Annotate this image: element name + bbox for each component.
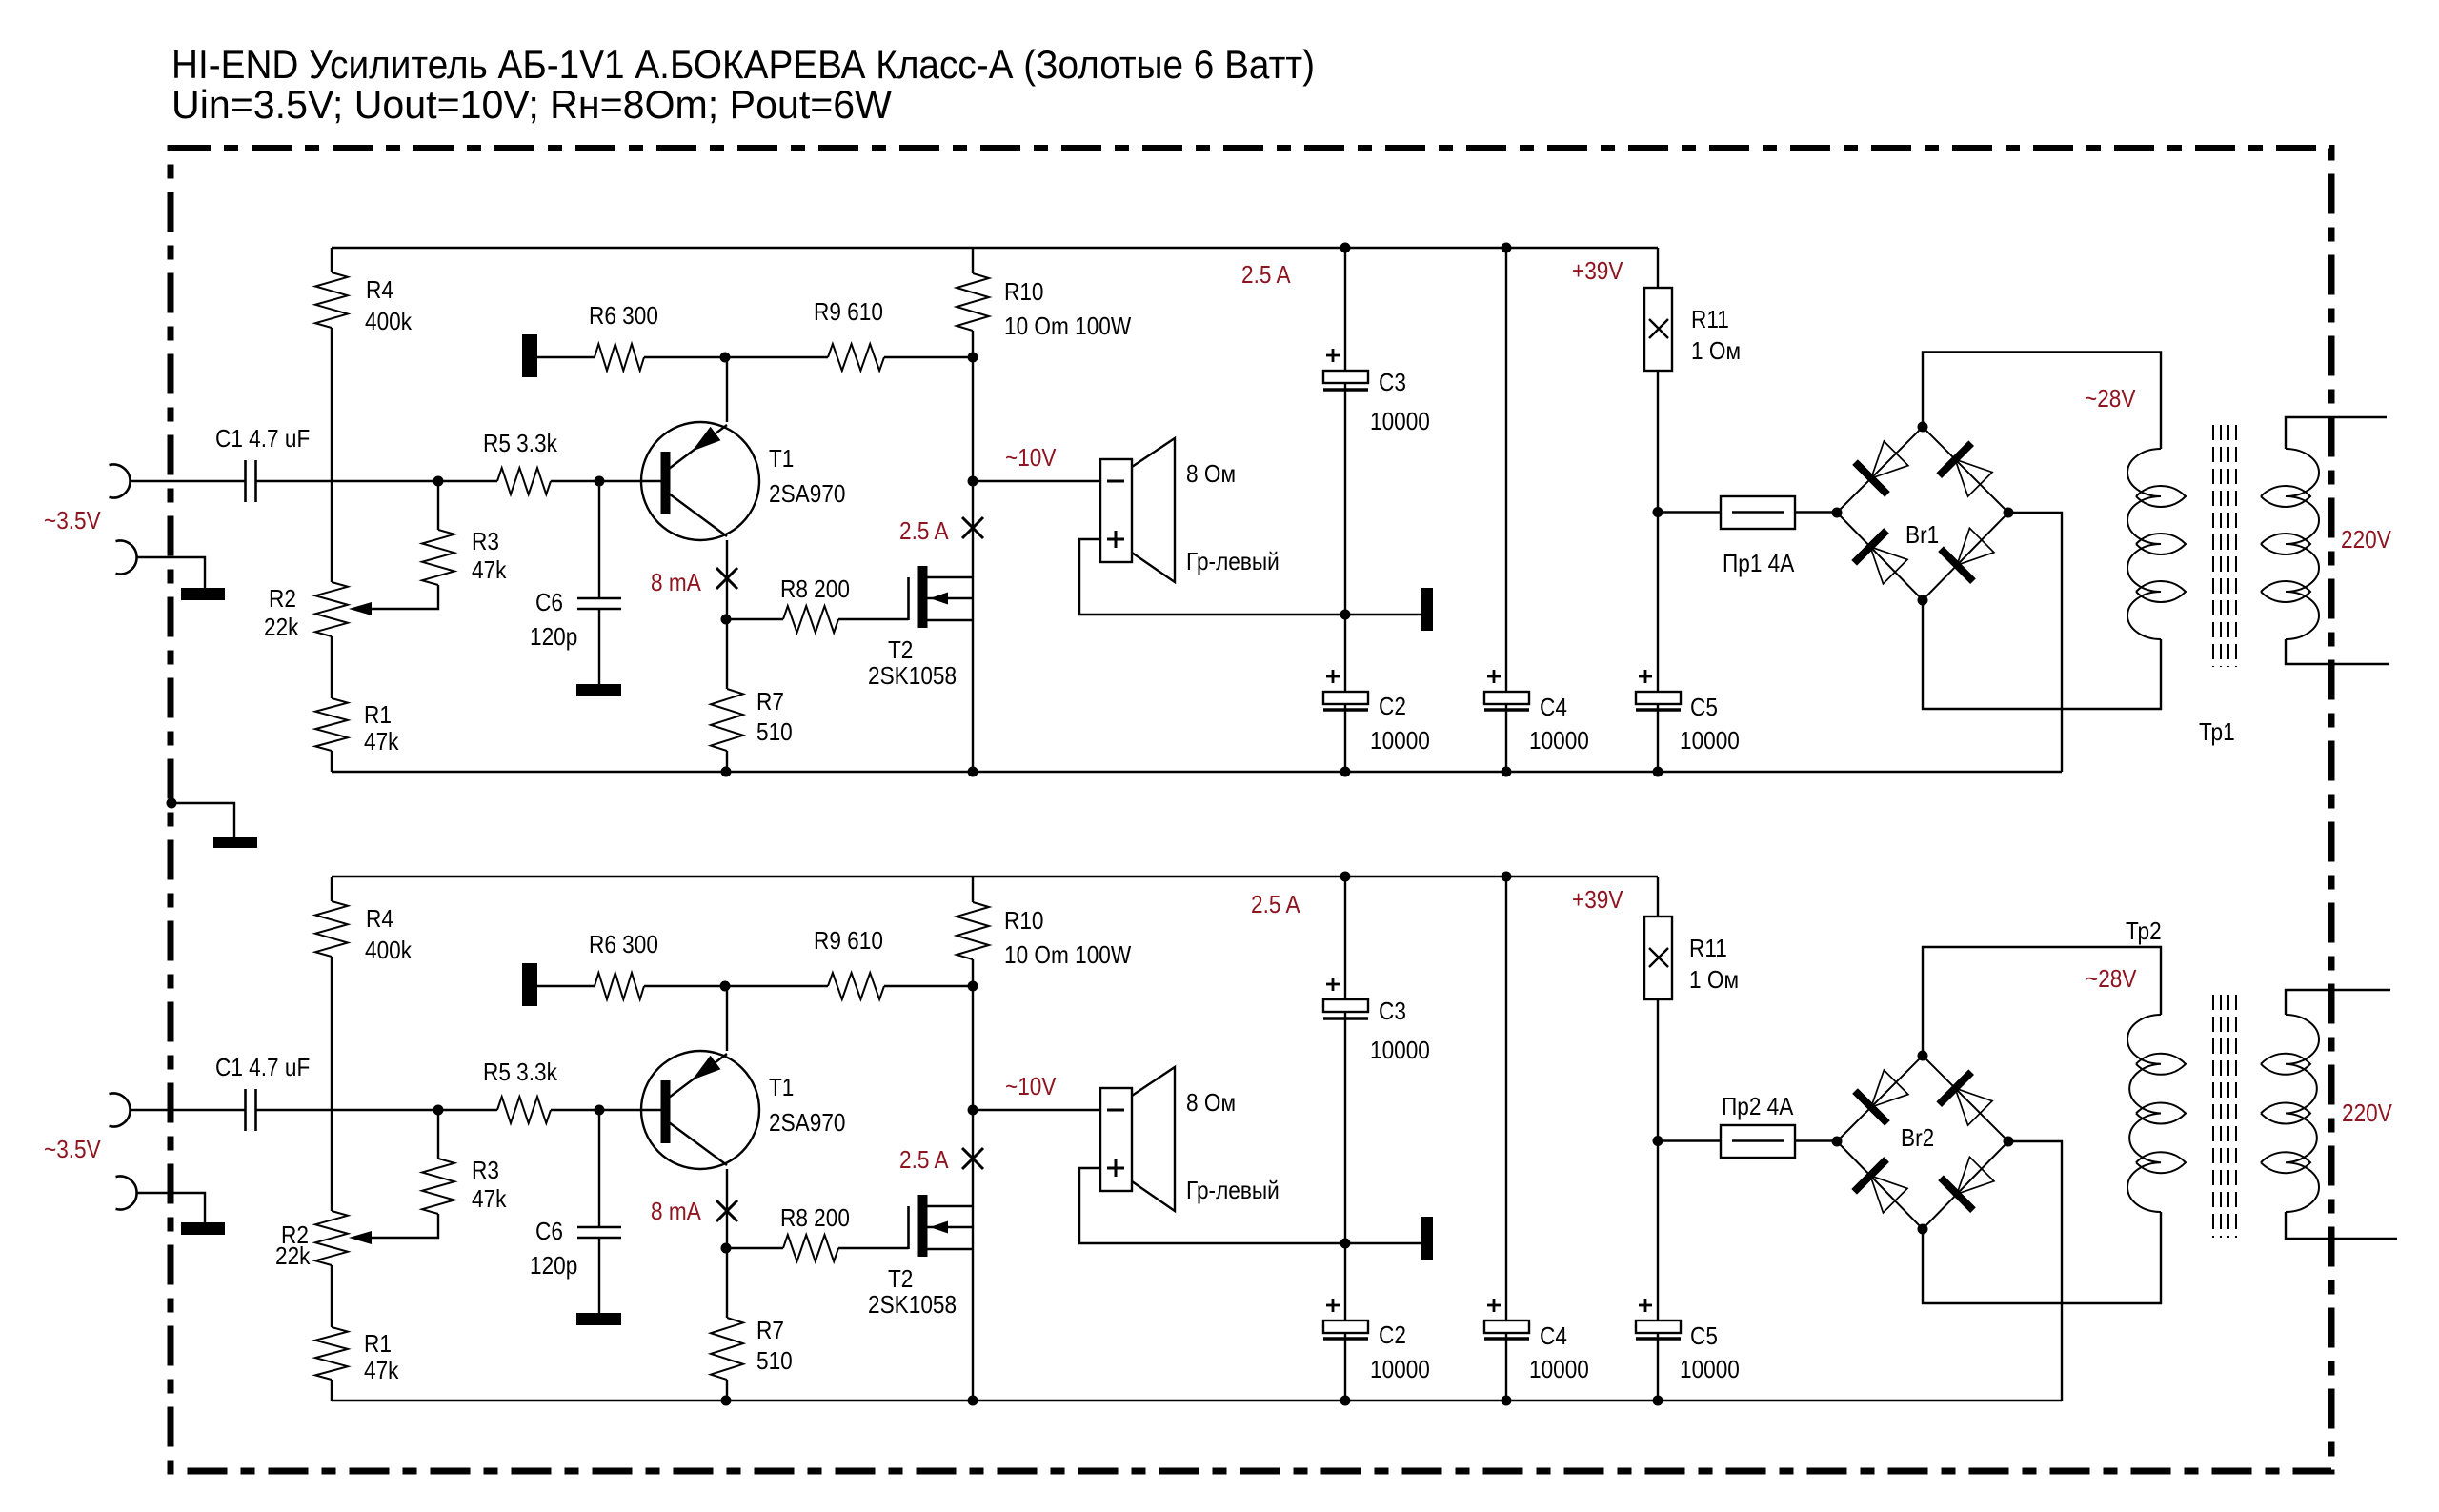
svg-text:C4: C4 [1540,695,1567,722]
resistor R7 ch1 [711,689,743,751]
svg-text:2SK1058: 2SK1058 [868,1292,957,1320]
diode D2 (top-right arm, Br2) ch2 [1939,1072,1971,1104]
svg-text:R5 3.3k: R5 3.3k [483,431,558,458]
wire left vertical (R4/R2/R1 chain) ch2 [331,877,333,901]
speaker terminal box ch2 [1100,1088,1132,1191]
svg-text:120p: 120p [530,1253,577,1280]
svg-text:10000: 10000 [1529,1357,1589,1384]
wire bridge minus return ch2 [2008,1141,2062,1401]
wire primary bottom lead (220V) ch1 [2286,639,2389,664]
wire chassis ground [171,803,234,837]
bridge rectifier Br1 arms ch1 [1837,427,2008,600]
svg-text:C2: C2 [1379,1322,1406,1350]
transistor T2 body arrow stub ch1 [927,597,973,599]
transistor T2 source stub ch2 [927,1248,973,1250]
wire R6 to junction ch1 [644,356,828,358]
wire C4 branch ch2 [1505,877,1507,1320]
junction node bottom rail C4 ch1 [1502,767,1512,777]
junction node bridge DC minus ch1 [2004,508,2014,518]
wire bridge AC bottom to secondary ch2 [1923,1212,2161,1303]
junction node bridge AC bottom ch1 [1918,595,1928,606]
svg-text:C3: C3 [1379,998,1406,1026]
wire R7 to rail ch2 [726,1380,728,1401]
wire R3 top lead ch2 [437,1110,439,1159]
svg-text:R3: R3 [472,529,499,556]
wire top rail ch2 [332,876,1658,877]
wire R6 to junction ch2 [644,985,828,987]
svg-text:R3: R3 [472,1158,499,1185]
wire R8 to T2 gate ch1 [838,618,909,620]
svg-text:2.5 A: 2.5 A [899,518,949,546]
svg-text:8 Ом: 8 Ом [1186,1090,1236,1118]
svg-text:+39V: +39V [1572,887,1623,915]
svg-text:C2: C2 [1379,694,1406,721]
transistor T1 emitter arrow (PNP) ch1 [692,427,720,452]
svg-text:C1 4.7 uF: C1 4.7 uF [215,1055,310,1082]
wire T1 base node to C6 ch1 [598,481,600,597]
junction node C3 top ch2 [1340,872,1351,882]
current cross mark 8mA ch1 [716,568,737,589]
wire C1 to R5 ch2 [256,1109,497,1111]
transistor T2 drain stub ch2 [927,1205,973,1207]
junction node C3 top ch1 [1340,243,1351,253]
resistor R6 ch2 [595,973,644,999]
svg-text:Тр1: Тр1 [2199,719,2235,747]
svg-text:Uin=3.5V; Uout=10V; Rн=8Om; Po: Uin=3.5V; Uout=10V; Rн=8Om; Pout=6W [171,82,892,127]
svg-text:10 Om 100W: 10 Om 100W [1004,942,1131,970]
wire C2 to rail ch2 [1344,1333,1346,1401]
junction node bottom rail T2 source ch1 [968,767,978,777]
junction node bridge AC top ch2 [1918,1051,1928,1061]
transformer Тр1 secondary winding ch1 [2127,449,2161,639]
svg-text:T2: T2 [888,637,913,665]
wire primary bottom lead (220V) ch2 [2286,1212,2397,1239]
transistor T2 channel bar ch1 [918,566,928,628]
svg-text:C6: C6 [535,1219,563,1246]
junction node R9/R10 ch1 [968,353,978,363]
capacitor C5 ch2 [1636,1320,1681,1333]
svg-text:R6 300: R6 300 [589,932,658,959]
wire speaker plus return ch1 [1079,539,1421,615]
svg-text:2SK1058: 2SK1058 [868,663,957,691]
capacitor C1 ch2 [244,1089,247,1131]
svg-text:+39V: +39V [1572,258,1623,286]
junction node T1 base / C6 ch2 [595,1105,605,1116]
wire C4 to rail ch2 [1505,1333,1507,1401]
wire C2 to rail ch1 [1344,704,1346,772]
ground speaker return ch2 [1421,1217,1433,1260]
ground C6 ch2 [576,1313,621,1325]
svg-text:10000: 10000 [1370,1038,1430,1065]
transistor T2 gate line ch2 [907,1206,910,1249]
capacitor C6 ch2 [577,1226,621,1229]
wire R2 wiper arm from R3 ch2 [362,1214,438,1238]
svg-text:~3.5V: ~3.5V [44,508,101,535]
capacitor C3 plus ch1 [1326,354,1340,357]
svg-text:10000: 10000 [1529,728,1589,756]
capacitor C2 plus ch2 [1326,1304,1340,1307]
transistor T1 base bar ch2 [661,1080,671,1143]
svg-text:220V: 220V [2342,1100,2393,1128]
transformer Тр2 primary winding ch2 [2286,1015,2319,1212]
svg-text:R9 610: R9 610 [814,928,883,956]
diode D3 (bottom-left arm, Br1) ch1 [1854,531,1886,563]
svg-text:510: 510 [756,719,793,747]
junction node bottom rail C4 ch2 [1502,1396,1512,1406]
wire C3 to speaker return ch1 [1344,383,1346,615]
resistor R3 ch1 [422,530,454,585]
resistor R7 ch2 [711,1318,743,1380]
capacitor C2 ch2 [1323,1320,1368,1333]
svg-text:10000: 10000 [1680,728,1740,756]
junction node C4 top ch2 [1502,872,1512,882]
transistor T1 emitter arrow (PNP) ch2 [692,1056,720,1080]
resistor R6 ch1 [595,344,644,371]
enclosure dashed border [171,149,2331,1472]
svg-text:8 mA: 8 mA [651,570,701,597]
resistor R5 ch1 [497,468,551,494]
svg-text:R5 3.3k: R5 3.3k [483,1059,558,1087]
bridge rectifier Br2 arms ch2 [1837,1056,2008,1229]
wire R9 to R10 bottom ch2 [884,985,973,987]
wire C2 branch ch1 [1344,615,1346,692]
capacitor C4 plus ch2 [1487,1304,1501,1307]
svg-text:220V: 220V [2341,527,2392,554]
transistor T1 collector lead ch1 [669,494,727,536]
svg-text:R8 200: R8 200 [780,1205,850,1233]
resistor R5 ch2 [497,1097,551,1123]
capacitor C6 ch1 [577,597,621,600]
svg-text:C5: C5 [1690,1323,1718,1351]
capacitor C5 ch1 [1636,692,1681,704]
svg-text:1 Ом: 1 Ом [1689,967,1739,995]
svg-text:10000: 10000 [1680,1357,1740,1384]
capacitor C3 plus ch2 [1326,983,1340,986]
junction node bridge DC plus ch1 [1832,508,1843,518]
svg-text:47k: 47k [472,1186,507,1214]
svg-text:Пр2 4А: Пр2 4А [1722,1094,1794,1121]
wire bottom rail ch2 [332,1400,2062,1401]
transistor T1 emitter lead ch1 [669,425,727,469]
speaker terminal box ch1 [1100,459,1132,562]
fusible resistor R11 ch1 [1644,288,1672,371]
svg-text:Пр1 4А: Пр1 4А [1723,551,1795,578]
wire R9 to R10 bottom ch1 [884,356,973,358]
wire R6 ground lead ch2 [537,985,595,987]
transistor T1 emitter lead ch2 [669,1054,727,1098]
wire node to fuse ch1 [1658,511,1721,513]
wire R8 left ch1 [726,618,783,620]
resistor R3 ch2 [422,1159,454,1214]
transistor T2 source stub ch1 [927,619,973,621]
svg-text:47k: 47k [472,557,507,585]
junction node R7/R8 ch2 [721,1243,732,1254]
svg-text:47k: 47k [364,1358,399,1385]
ground input ch1 [181,588,225,600]
transistor T2 channel bar ch2 [918,1195,928,1257]
ground input ch2 [181,1222,225,1235]
transistor T2 drain stub ch1 [927,576,973,578]
svg-text:400k: 400k [365,309,413,336]
junction node bottom rail C5 ch2 [1653,1396,1663,1406]
resistor R1 ch1 [315,698,348,751]
wire R5 to T1 base ch2 [551,1109,661,1111]
capacitor C2 plus ch1 [1326,675,1340,678]
wire right rail top ch1 [972,248,974,273]
junction node bridge AC top ch1 [1918,422,1928,433]
diode D1 (top-left arm, Br2) ch2 [1855,1091,1887,1123]
junction node speaker return / C2 ch1 [1340,610,1351,620]
wire R11 to C5/fuse node ch2 [1657,999,1659,1320]
svg-text:~28V: ~28V [2085,386,2136,413]
svg-text:R8 200: R8 200 [780,576,850,604]
resistor R9 ch1 [828,344,884,371]
resistor R4 ch1 [315,272,348,328]
wire top rail into R11 ch2 [1657,877,1659,917]
svg-text:120p: 120p [530,624,577,652]
svg-text:R7: R7 [756,1318,784,1345]
junction node speaker return / C2 ch2 [1340,1239,1351,1249]
wire C4 branch ch1 [1505,248,1507,692]
wire R8 left ch2 [726,1247,783,1249]
wire bridge AC top to secondary ch1 [1923,353,2161,450]
svg-text:T1: T1 [769,446,794,474]
transistor T2 arrowhead ch1 [930,593,948,605]
wire right rail ch2 [972,959,974,1401]
svg-text:10000: 10000 [1370,728,1430,756]
svg-text:10 Om 100W: 10 Om 100W [1004,313,1131,341]
wire speaker plus return ch2 [1079,1168,1421,1243]
svg-text:Гр-левый: Гр-левый [1186,549,1280,576]
fuse Пр2 ch2 [1721,1125,1795,1158]
svg-text:R6 300: R6 300 [589,303,658,331]
wire output to speaker ch1 [973,480,1100,482]
wire right rail top ch2 [972,877,974,902]
svg-text:C6: C6 [535,590,563,617]
junction node bridge DC minus ch2 [2004,1137,2014,1147]
wire bottom rail ch1 [332,771,2062,773]
wire right rail ch1 [972,331,974,772]
wire C4 to rail ch1 [1505,704,1507,772]
svg-text:Тр2: Тр2 [2126,918,2162,946]
wire R2 wiper arm from R3 ch1 [362,585,438,609]
wire R5 to T1 base ch1 [551,480,661,482]
resistor R4 ch2 [315,901,348,957]
junction node R11/fuse/C5 ch1 [1653,507,1663,517]
wire top rail into R11 ch1 [1657,248,1659,288]
junction node bottom rail T2 source ch2 [968,1396,978,1406]
resistor R10 ch2 [957,902,989,959]
junction node bottom rail C5 ch1 [1653,767,1663,777]
resistor R8 ch2 [783,1235,838,1261]
transformer Тр2 secondary winding ch2 [2127,1015,2161,1212]
speaker minus sign ch2 [1107,1109,1124,1112]
svg-text:C3: C3 [1379,370,1406,397]
wire primary top lead (220V) ch1 [2286,417,2387,449]
current cross mark 2.5A ch1 [962,517,983,538]
transformer Тр1 primary winding ch1 [2286,449,2319,639]
wire R11 to C5/fuse node ch1 [1657,371,1659,692]
wire R3 top lead ch1 [437,481,439,530]
svg-text:22k: 22k [275,1243,311,1271]
wire left vertical (R4/R2/R1 chain) ch1 [331,248,333,272]
capacitor C5 plus ch2 [1639,1304,1652,1307]
potentiometer R2 ch2 [315,1211,348,1265]
svg-text:R1: R1 [364,1331,392,1359]
wire C2 branch ch2 [1344,1243,1346,1320]
capacitor C2 ch1 [1323,692,1368,704]
R2 wiper arrowhead ch2 [349,1231,372,1244]
wire T1 emitter ch1 [726,357,728,422]
wire C3 branch upper ch2 [1344,877,1346,999]
svg-text:Гр-левый: Гр-левый [1186,1178,1280,1205]
svg-text:R9 610: R9 610 [814,299,883,327]
wire C1 to R5 ch1 [256,480,497,482]
svg-text:R10: R10 [1004,279,1043,307]
svg-text:8 mA: 8 mA [651,1199,701,1226]
speaker horn ch2 [1132,1067,1175,1211]
wire input sleeve to ground ch2 [137,1193,206,1222]
wire input to C1 ch1 [131,480,246,482]
fuse Пр1 ch1 [1721,496,1795,529]
svg-text:R4: R4 [366,277,393,305]
speaker minus sign ch1 [1107,480,1124,483]
resistor R10 ch1 [957,273,989,331]
capacitor C4 ch2 [1484,1320,1529,1333]
diode D4 (bottom-right arm, Br2) ch2 [1941,1178,1973,1210]
svg-text:T1: T1 [769,1075,794,1102]
svg-text:1 Ом: 1 Ом [1691,338,1741,366]
diode D3 (bottom-left arm, Br2) ch2 [1854,1159,1886,1192]
transistor T1 circle ch2 [641,1051,759,1169]
junction node R6/R9/T1 emitter ch1 [720,353,731,363]
junction node R7/R8 ch1 [721,615,732,625]
wire C3 branch upper ch1 [1344,248,1346,371]
R2 wiper arrowhead ch1 [349,602,372,615]
wire fuse to bridge ch1 [1795,511,1837,513]
junction node bottom rail C2 ch1 [1340,767,1351,777]
transistor T2 arrowhead ch2 [930,1221,948,1234]
svg-text:R11: R11 [1689,936,1727,963]
wire bridge minus return ch1 [2008,513,2062,772]
junction node bottom rail R7 ch2 [721,1396,732,1406]
resistor R9 ch2 [828,973,884,999]
speaker plus sign ch2 [1107,1167,1124,1170]
wire R6 ground lead ch1 [537,356,595,358]
diode D1 (top-left arm, Br1) ch1 [1855,462,1887,494]
svg-text:Br2: Br2 [1901,1125,1934,1153]
capacitor C5 plus ch1 [1639,675,1652,678]
junction node bridge DC plus ch2 [1832,1137,1843,1147]
resistor R8 ch1 [783,606,838,633]
transformer Тр2 core ch2 [2212,995,2214,1238]
svg-text:C5: C5 [1690,695,1718,722]
wire C5 to rail ch2 [1657,1333,1659,1401]
ground chassis (between channels) [213,837,257,848]
svg-text:R7: R7 [756,689,784,716]
capacitor C4 ch1 [1484,692,1529,704]
wire T1 collector down ch1 [726,540,728,689]
wire R7 to rail ch1 [726,751,728,772]
wire T1 emitter ch2 [726,986,728,1051]
svg-text:~10V: ~10V [1005,1074,1057,1101]
speaker plus sign ch1 [1107,538,1124,541]
junction node T1 base / C6 ch1 [595,476,605,487]
input connector sleeve ch2 [116,1177,137,1210]
svg-text:22k: 22k [264,615,299,642]
wire fuse to bridge ch2 [1795,1139,1837,1141]
diode D4 (bottom-right arm, Br1) ch1 [1941,549,1973,581]
svg-text:2.5 A: 2.5 A [1241,262,1291,290]
wire C5 to rail ch1 [1657,704,1659,772]
diode D2 (top-right arm, Br1) ch1 [1939,443,1971,475]
wire primary top lead (220V) ch2 [2286,990,2390,1015]
svg-text:2SA970: 2SA970 [769,1110,845,1138]
svg-text:2.5 A: 2.5 A [899,1147,949,1175]
junction node bridge AC bottom ch2 [1918,1224,1928,1235]
wire bridge AC top to secondary ch2 [1923,947,2161,1056]
junction node bottom rail C2 ch2 [1340,1396,1351,1406]
wire C6 to ground ch1 [598,609,600,684]
svg-text:Br1: Br1 [1905,522,1939,550]
junction node output ch2 [968,1105,978,1116]
svg-text:R11: R11 [1691,307,1729,334]
capacitor C3 ch1 [1323,371,1368,383]
input connector sleeve ch1 [116,541,137,575]
junction node C4 top ch1 [1502,243,1512,253]
wire C6 to ground ch2 [598,1238,600,1313]
potentiometer R2 ch1 [315,582,348,636]
wire top rail ch1 [332,247,1658,249]
junction node output ch1 [968,476,978,487]
ground speaker return ch1 [1421,588,1433,631]
svg-text:2.5 A: 2.5 A [1251,892,1300,919]
wire T1 base node to C6 ch2 [598,1110,600,1226]
wire R8 to T2 gate ch2 [838,1247,909,1249]
wire node to fuse ch2 [1658,1139,1721,1141]
resistor R1 ch2 [315,1327,348,1380]
svg-text:~28V: ~28V [2086,966,2137,994]
junction node R3 tap ch2 [433,1105,444,1116]
svg-text:10000: 10000 [1370,1357,1430,1384]
svg-text:47k: 47k [364,729,399,756]
transistor T1 base bar ch1 [661,452,671,514]
wire T1 collector down ch2 [726,1169,728,1318]
ground terminal R6 ch1 [522,334,537,377]
svg-text:C4: C4 [1540,1323,1567,1351]
current cross mark 2.5A ch2 [962,1148,983,1169]
svg-text:~3.5V: ~3.5V [44,1137,101,1164]
input connector tip ch1 [110,465,131,498]
svg-text:HI-END Усилитель АБ-1V1 А.БОКА: HI-END Усилитель АБ-1V1 А.БОКАРЕВА Класс… [171,42,1315,87]
transformer Тр1 core ch1 [2212,425,2214,667]
fusible resistor R11 ch2 [1644,917,1672,999]
transistor T1 collector lead ch2 [669,1122,727,1165]
wire bridge AC bottom to secondary ch1 [1923,600,2161,709]
svg-text:R10: R10 [1004,908,1043,936]
junction node chassis ground on border [167,798,177,809]
transistor T2 gate line ch1 [907,577,910,620]
input connector tip ch2 [110,1094,131,1127]
junction node R6/R9/T1 emitter ch2 [720,981,731,992]
junction node bottom rail R7 ch1 [721,767,732,777]
capacitor C3 ch2 [1323,999,1368,1012]
transistor T1 circle ch1 [641,422,759,540]
wire C3 to speaker return ch2 [1344,1012,1346,1243]
svg-text:T2: T2 [888,1266,913,1294]
svg-text:10000: 10000 [1370,409,1430,436]
junction node R9/R10 ch2 [968,981,978,992]
